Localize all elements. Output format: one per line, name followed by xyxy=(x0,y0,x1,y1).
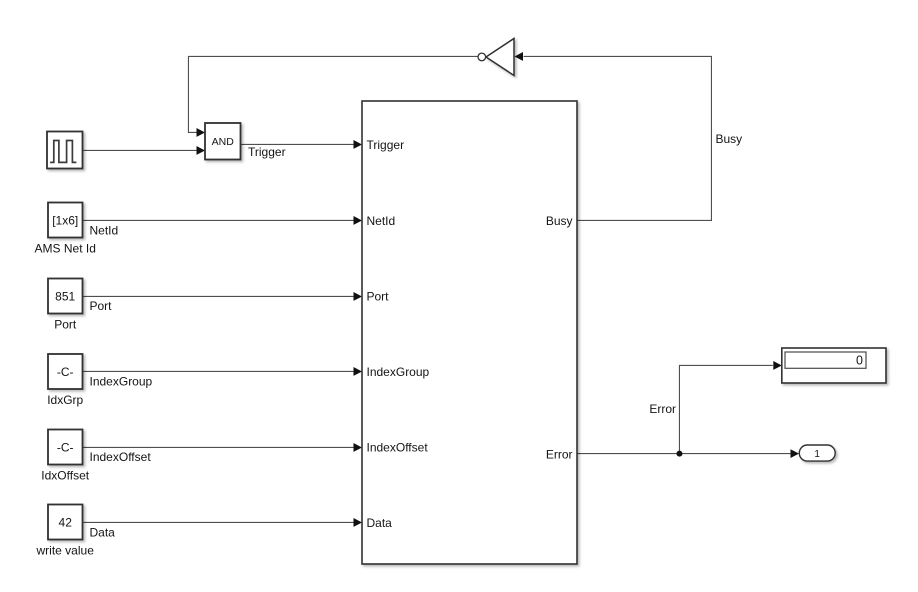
svg-text:IndexGroup: IndexGroup xyxy=(367,365,430,379)
svg-text:Busy: Busy xyxy=(716,132,743,146)
svg-text:IndexOffset: IndexOffset xyxy=(367,440,429,454)
svg-text:1: 1 xyxy=(814,449,820,460)
svg-text:Port: Port xyxy=(54,318,77,332)
svg-text:Busy: Busy xyxy=(546,214,573,228)
svg-text:IndexGroup: IndexGroup xyxy=(90,375,153,389)
svg-text:IdxGrp: IdxGrp xyxy=(47,393,83,407)
svg-text:IndexOffset: IndexOffset xyxy=(90,450,152,464)
svg-text:AND: AND xyxy=(212,136,235,148)
svg-text:Data: Data xyxy=(367,516,393,530)
svg-text:-C-: -C- xyxy=(57,365,74,379)
svg-text:Trigger: Trigger xyxy=(367,138,405,152)
svg-text:NetId: NetId xyxy=(367,214,396,228)
svg-text:Data: Data xyxy=(90,526,116,540)
svg-text:Port: Port xyxy=(367,289,390,303)
svg-text:Port: Port xyxy=(90,299,113,313)
svg-text:42: 42 xyxy=(59,515,73,529)
svg-text:-C-: -C- xyxy=(57,440,74,454)
svg-text:write value: write value xyxy=(36,544,95,558)
svg-text:Trigger: Trigger xyxy=(248,145,286,159)
svg-text:[1x6]: [1x6] xyxy=(52,213,78,227)
svg-text:NetId: NetId xyxy=(90,224,119,238)
svg-text:851: 851 xyxy=(55,289,75,303)
svg-text:Error: Error xyxy=(649,402,676,416)
svg-text:AMS Net Id: AMS Net Id xyxy=(35,242,96,256)
svg-text:IdxOffset: IdxOffset xyxy=(41,469,89,483)
svg-text:0: 0 xyxy=(856,354,863,368)
svg-text:Error: Error xyxy=(546,447,573,461)
